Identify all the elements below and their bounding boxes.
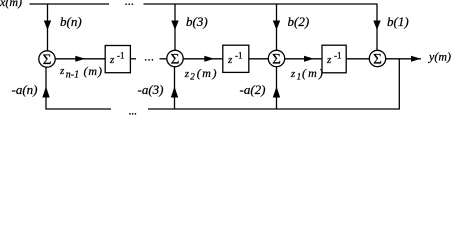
summer S2 [167, 50, 183, 66]
svg-text:(m): (m) [302, 66, 325, 80]
svg-text:z: z [290, 68, 296, 80]
svg-text:z: z [227, 54, 233, 66]
arrowhead down b(3) [171, 21, 178, 31]
arrowhead output [411, 56, 421, 62]
wire feedback -a(3) vertical [174, 67, 176, 110]
svg-text:-a(3): -a(3) [138, 82, 164, 97]
svg-text:z: z [326, 54, 332, 66]
wire into S2 [160, 58, 167, 60]
svg-text:Σ: Σ [373, 52, 382, 68]
svg-text:b(1): b(1) [387, 14, 409, 29]
delay box Z1 [105, 46, 130, 73]
wire S3 to delay box Z3 [285, 58, 322, 60]
arrowhead down b(2) [273, 21, 280, 31]
svg-text:-a(n): -a(n) [12, 82, 38, 97]
svg-text:Σ: Σ [43, 52, 52, 68]
svg-text:-a(2): -a(2) [240, 82, 266, 97]
svg-text:-1: -1 [334, 51, 342, 61]
summer S1 [39, 51, 55, 67]
delay box Z3 [322, 45, 346, 73]
arrowhead down b(n) [44, 21, 51, 31]
wire output feedback vertical [398, 59, 400, 109]
svg-text:2: 2 [190, 72, 195, 82]
summer S3 [268, 50, 284, 66]
wire S2 to delay box Z2 [183, 58, 223, 60]
arrowhead down b(1) [373, 21, 380, 31]
node top ellipsis dots [125, 3, 133, 5]
wire branch b(2) vertical [276, 4, 278, 51]
svg-text:Σ: Σ [171, 52, 180, 68]
svg-text:b(n): b(n) [60, 14, 82, 29]
wire Z2 to S3 [249, 58, 268, 60]
svg-text:b(3): b(3) [186, 14, 208, 29]
arrowhead up -a(3) [171, 87, 178, 98]
arrowhead right after S3 [304, 56, 314, 62]
wire branch b(3) vertical [174, 4, 176, 51]
wire top input line segment 2 [144, 3, 378, 5]
svg-text:(m): (m) [84, 64, 103, 78]
wire Z3 to S4 [346, 58, 369, 60]
wire feedback -a(2) vertical [276, 67, 278, 110]
arrowhead up -a(2) [273, 87, 280, 98]
arrowhead right after S2 [204, 56, 214, 62]
svg-text:Σ: Σ [272, 52, 281, 68]
svg-text:y(m): y(m) [428, 50, 451, 64]
arrowhead up -a(n) [42, 87, 49, 98]
wire S1 to delay box Z1 [55, 58, 105, 60]
node bottom ellipsis dots [129, 113, 136, 115]
wire S4 to output [386, 58, 421, 60]
svg-text:-1: -1 [117, 51, 125, 61]
wire branch b(n) vertical [47, 4, 49, 51]
svg-text:x(m): x(m) [0, 0, 22, 9]
wire feedback -a(n) vertical [45, 67, 47, 109]
svg-text:b(2): b(2) [288, 14, 310, 29]
wire Z1 right stub [130, 58, 136, 60]
svg-text:1: 1 [297, 72, 302, 82]
svg-text:n-1: n-1 [66, 69, 79, 80]
svg-text:-1: -1 [235, 51, 243, 61]
wire top input line segment 1 [30, 3, 110, 5]
wire branch b(1) vertical [376, 4, 378, 51]
svg-text:(m): (m) [197, 66, 218, 80]
arrowhead right after S1 [75, 56, 85, 62]
node middle ellipsis dots [145, 59, 153, 61]
svg-text:z: z [109, 54, 115, 66]
wire bottom feedback line right segment [148, 108, 400, 110]
svg-text:z: z [59, 65, 65, 77]
summer S4 [369, 50, 385, 66]
svg-text:z: z [184, 68, 190, 80]
delay box Z2 [223, 45, 249, 72]
wire bottom feedback line left segment [45, 108, 111, 110]
